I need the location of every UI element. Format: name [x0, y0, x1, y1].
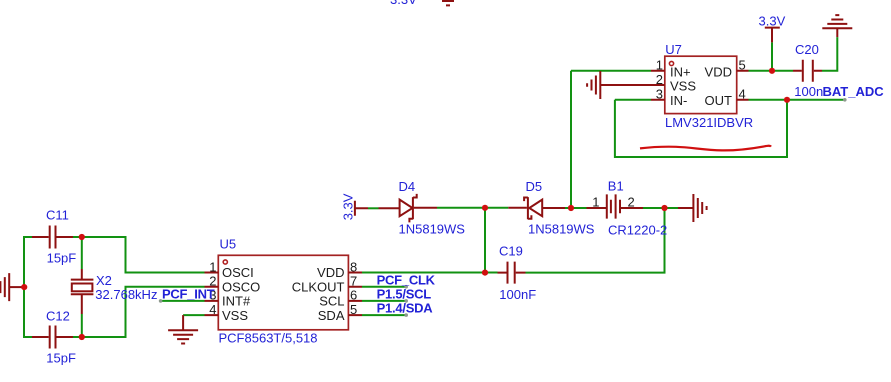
- wire feedback loop: [615, 100, 787, 157]
- svg-text:1: 1: [592, 194, 599, 209]
- U5 pin names: [222, 265, 345, 323]
- wire: [24, 237, 32, 337]
- U5 designator: [220, 237, 237, 252]
- wire: [570, 71, 572, 208]
- svg-text:4: 4: [739, 87, 746, 102]
- wire: [771, 42, 773, 70]
- gray dot (wire end): [159, 299, 163, 303]
- label C19: [499, 244, 523, 259]
- diode D4 1N5819WS: [379, 194, 438, 223]
- gray dot (wire end): [843, 98, 847, 102]
- svg-text:15pF: 15pF: [46, 350, 76, 365]
- label D5: [526, 179, 543, 194]
- svg-text:C11: C11: [46, 208, 69, 223]
- value 15pF: [47, 250, 77, 265]
- label C11: [46, 208, 69, 223]
- ground at U7 VSS: [587, 71, 600, 99]
- ground left: [0, 273, 24, 301]
- svg-text:OSCO: OSCO: [222, 279, 260, 294]
- wire: [615, 99, 651, 101]
- wire: [368, 207, 379, 209]
- svg-text:1: 1: [209, 259, 216, 274]
- value CR1220-2: [608, 222, 667, 237]
- wire: [437, 207, 485, 209]
- net label BAT_ADC: [823, 84, 885, 99]
- svg-text:32.768kHz: 32.768kHz: [95, 287, 157, 302]
- junction: [482, 270, 488, 276]
- svg-text:P1.5/SCL: P1.5/SCL: [377, 287, 432, 302]
- U7 value LMV321IDBVR: [665, 115, 753, 130]
- svg-text:5: 5: [739, 58, 746, 73]
- svg-text:IN+: IN+: [670, 65, 691, 80]
- svg-text:VSS: VSS: [222, 308, 248, 323]
- junction: [482, 205, 488, 211]
- ground right of B1: [678, 194, 707, 222]
- wire: [822, 37, 837, 71]
- IC U7: [600, 56, 748, 113]
- gray dot (wire end): [404, 313, 408, 317]
- svg-text:2: 2: [656, 72, 663, 87]
- wire: [362, 272, 498, 274]
- wire: [643, 207, 678, 209]
- battery B1: [587, 194, 644, 218]
- svg-text:C12: C12: [46, 309, 70, 324]
- crystal X2: [71, 269, 94, 314]
- svg-text:LMV321IDBVR: LMV321IDBVR: [665, 115, 753, 130]
- value 32.768kHz: [95, 287, 157, 302]
- label C20: [795, 42, 819, 57]
- wire: [565, 207, 587, 209]
- U5 value PCF8563T/5,518: [219, 330, 318, 345]
- svg-text:3.3V: 3.3V: [390, 0, 417, 7]
- svg-text:U5: U5: [220, 237, 237, 252]
- ground top right: [822, 15, 852, 37]
- label X2: [96, 273, 112, 288]
- svg-text:BAT_ADC: BAT_ADC: [823, 84, 885, 99]
- svg-text:3: 3: [656, 87, 663, 102]
- svg-text:7: 7: [350, 274, 357, 289]
- ground (clipped top): [442, 1, 454, 5]
- svg-text:3.3V: 3.3V: [341, 193, 356, 220]
- value 100n: [794, 84, 823, 99]
- svg-text:X2: X2: [96, 273, 112, 288]
- svg-text:SDA: SDA: [318, 308, 345, 323]
- value 1N5819WS: [528, 222, 595, 237]
- svg-text:D4: D4: [399, 179, 416, 194]
- wire: [526, 208, 665, 273]
- net label P1.4/SDA: [377, 301, 434, 316]
- value 100nF: [499, 287, 536, 302]
- svg-text:OUT: OUT: [705, 93, 733, 108]
- U5 pin numbers: [209, 259, 357, 317]
- wire SCL: [362, 300, 407, 302]
- label D4: [399, 179, 416, 194]
- svg-text:2: 2: [628, 194, 635, 209]
- capacitor C11: [32, 226, 73, 249]
- gray dot (wire end): [404, 285, 408, 289]
- svg-text:1N5819WS: 1N5819WS: [528, 222, 595, 237]
- wire PCF_INT: [161, 300, 205, 302]
- wire BAT_ADC: [749, 99, 845, 101]
- wire SDA: [362, 314, 407, 316]
- wire: [73, 237, 205, 273]
- wire PCF_CLK: [362, 286, 407, 288]
- wire: [749, 70, 794, 72]
- junction: [784, 97, 790, 103]
- diode D5 1N5819WS: [508, 197, 565, 219]
- svg-text:8: 8: [350, 259, 357, 274]
- svg-text:1N5819WS: 1N5819WS: [399, 222, 466, 237]
- svg-text:5: 5: [350, 302, 357, 317]
- wire: [484, 208, 486, 273]
- net label PCF_CLK: [377, 272, 436, 287]
- junction: [21, 284, 27, 290]
- U7 pin names: [670, 65, 732, 109]
- value 15pF: [46, 350, 76, 365]
- gray dot (wire end): [404, 299, 408, 303]
- wire: [81, 236, 83, 269]
- svg-text:B1: B1: [608, 179, 624, 194]
- svg-text:INT#: INT#: [222, 294, 251, 309]
- wire: [485, 207, 508, 209]
- junction: [661, 205, 667, 211]
- svg-text:PCF_INT: PCF_INT: [162, 286, 215, 301]
- no-ERC squiggle: [640, 146, 771, 151]
- wire: [183, 314, 204, 316]
- svg-text:OSCI: OSCI: [222, 265, 254, 280]
- svg-text:PCF8563T/5,518: PCF8563T/5,518: [219, 330, 318, 345]
- svg-text:VDD: VDD: [705, 65, 732, 80]
- svg-text:IN-: IN-: [670, 93, 687, 108]
- wire: [73, 287, 205, 337]
- junction: [769, 68, 775, 74]
- svg-text:P1.4/SDA: P1.4/SDA: [377, 301, 434, 316]
- svg-text:6: 6: [350, 288, 357, 303]
- svg-text:15pF: 15pF: [47, 250, 77, 265]
- wire: [81, 314, 83, 338]
- power port 3.3V (left, rotated): [341, 193, 369, 220]
- svg-text:100n: 100n: [794, 84, 823, 99]
- label B1: [608, 179, 624, 194]
- svg-text:U7: U7: [665, 42, 682, 57]
- junction: [79, 234, 85, 240]
- svg-text:100nF: 100nF: [499, 287, 536, 302]
- U7 pin numbers: [656, 58, 746, 102]
- svg-text:1: 1: [656, 58, 663, 73]
- IC U5: [205, 255, 363, 329]
- wire: [571, 70, 651, 72]
- ground below U5: [168, 315, 198, 343]
- svg-text:CLKOUT: CLKOUT: [292, 279, 345, 294]
- value 1N5819WS: [399, 222, 466, 237]
- label C12: [46, 309, 70, 324]
- B1 pin numbers: [592, 194, 634, 209]
- svg-text:SCL: SCL: [319, 294, 344, 309]
- junction: [79, 334, 85, 340]
- net label PCF_INT: [162, 286, 215, 301]
- svg-text:C20: C20: [795, 42, 819, 57]
- svg-text:PCF_CLK: PCF_CLK: [377, 272, 436, 287]
- svg-text:3.3V: 3.3V: [759, 13, 786, 28]
- svg-text:D5: D5: [526, 179, 543, 194]
- svg-text:C19: C19: [499, 244, 523, 259]
- U7 designator: [665, 42, 682, 57]
- capacitor C19: [498, 262, 526, 284]
- power port 3.3V (clipped top): [390, 0, 417, 7]
- capacitor C20: [793, 60, 822, 82]
- svg-text:4: 4: [209, 302, 216, 317]
- svg-text:VSS: VSS: [670, 79, 696, 94]
- junction: [568, 205, 574, 211]
- svg-text:VDD: VDD: [317, 265, 344, 280]
- power port 3.3V (top): [759, 13, 786, 42]
- svg-text:CR1220-2: CR1220-2: [608, 222, 667, 237]
- capacitor C12: [32, 326, 73, 349]
- net label P1.5/SCL: [377, 287, 432, 302]
